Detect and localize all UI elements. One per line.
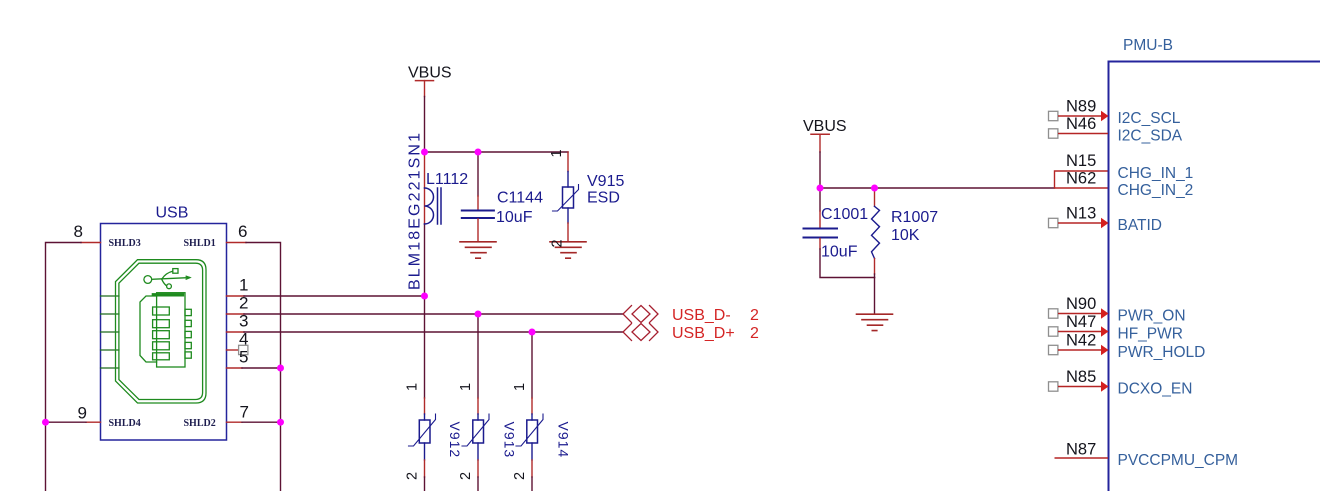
- svg-text:SHLD3: SHLD3: [109, 238, 141, 249]
- svg-text:VBUS: VBUS: [408, 65, 452, 82]
- svg-text:V915: V915: [587, 173, 624, 190]
- svg-text:3: 3: [239, 312, 248, 331]
- svg-text:SHLD1: SHLD1: [184, 238, 216, 249]
- svg-text:2: 2: [405, 472, 421, 480]
- svg-text:L1112: L1112: [426, 171, 468, 188]
- svg-text:V914: V914: [556, 422, 572, 459]
- svg-text:V912: V912: [447, 422, 463, 459]
- svg-text:4: 4: [239, 330, 248, 349]
- svg-text:DCXO_EN: DCXO_EN: [1118, 381, 1193, 398]
- svg-text:I2C_SDA: I2C_SDA: [1118, 128, 1183, 145]
- svg-text:10uF: 10uF: [496, 209, 533, 226]
- svg-text:1: 1: [549, 149, 565, 157]
- svg-text:2: 2: [550, 239, 566, 247]
- svg-text:C1144: C1144: [497, 190, 543, 207]
- svg-text:2: 2: [458, 472, 474, 480]
- svg-text:6: 6: [238, 222, 247, 241]
- svg-text:2: 2: [750, 307, 759, 324]
- svg-text:N13: N13: [1066, 205, 1096, 223]
- svg-text:1: 1: [512, 383, 528, 391]
- svg-text:PMU-B: PMU-B: [1123, 37, 1173, 54]
- svg-text:N15: N15: [1066, 152, 1096, 170]
- svg-text:BLM18EG221SN1: BLM18EG221SN1: [407, 133, 424, 290]
- svg-text:V913: V913: [502, 422, 518, 459]
- svg-text:N87: N87: [1066, 441, 1096, 459]
- svg-text:10K: 10K: [891, 227, 920, 244]
- svg-text:7: 7: [240, 403, 249, 422]
- svg-text:VBUS: VBUS: [803, 118, 847, 135]
- svg-text:9: 9: [78, 404, 87, 423]
- svg-text:N46: N46: [1066, 115, 1096, 133]
- svg-text:C1001: C1001: [821, 206, 868, 223]
- svg-text:USB_D+: USB_D+: [672, 325, 735, 342]
- svg-text:N62: N62: [1066, 170, 1096, 188]
- svg-text:USB_D-: USB_D-: [672, 307, 731, 324]
- svg-text:10uF: 10uF: [821, 244, 858, 261]
- svg-text:CHG_IN_2: CHG_IN_2: [1118, 182, 1194, 199]
- svg-text:N85: N85: [1066, 368, 1096, 386]
- svg-text:N42: N42: [1066, 332, 1096, 350]
- svg-text:PWR_ON: PWR_ON: [1118, 308, 1186, 325]
- svg-text:SHLD2: SHLD2: [184, 418, 216, 429]
- svg-text:USB: USB: [156, 205, 189, 222]
- svg-text:PWR_HOLD: PWR_HOLD: [1118, 344, 1206, 361]
- svg-text:8: 8: [74, 222, 83, 241]
- svg-text:R1007: R1007: [891, 209, 938, 226]
- svg-text:CHG_IN_1: CHG_IN_1: [1118, 165, 1194, 182]
- svg-text:2: 2: [239, 294, 248, 313]
- svg-text:1: 1: [458, 383, 474, 391]
- svg-text:PVCCPMU_CPM: PVCCPMU_CPM: [1118, 452, 1239, 469]
- svg-text:BATID: BATID: [1118, 217, 1163, 234]
- svg-text:2: 2: [750, 325, 759, 342]
- svg-text:N89: N89: [1066, 98, 1096, 116]
- svg-text:N90: N90: [1066, 295, 1096, 313]
- svg-text:SHLD4: SHLD4: [109, 418, 141, 429]
- svg-text:N47: N47: [1066, 313, 1096, 331]
- svg-text:HF_PWR: HF_PWR: [1118, 326, 1183, 343]
- svg-text:1: 1: [405, 383, 421, 391]
- svg-text:ESD: ESD: [587, 190, 620, 207]
- svg-text:1: 1: [239, 276, 248, 295]
- svg-text:2: 2: [512, 472, 528, 480]
- svg-text:I2C_SCL: I2C_SCL: [1118, 110, 1181, 127]
- svg-text:5: 5: [239, 348, 248, 367]
